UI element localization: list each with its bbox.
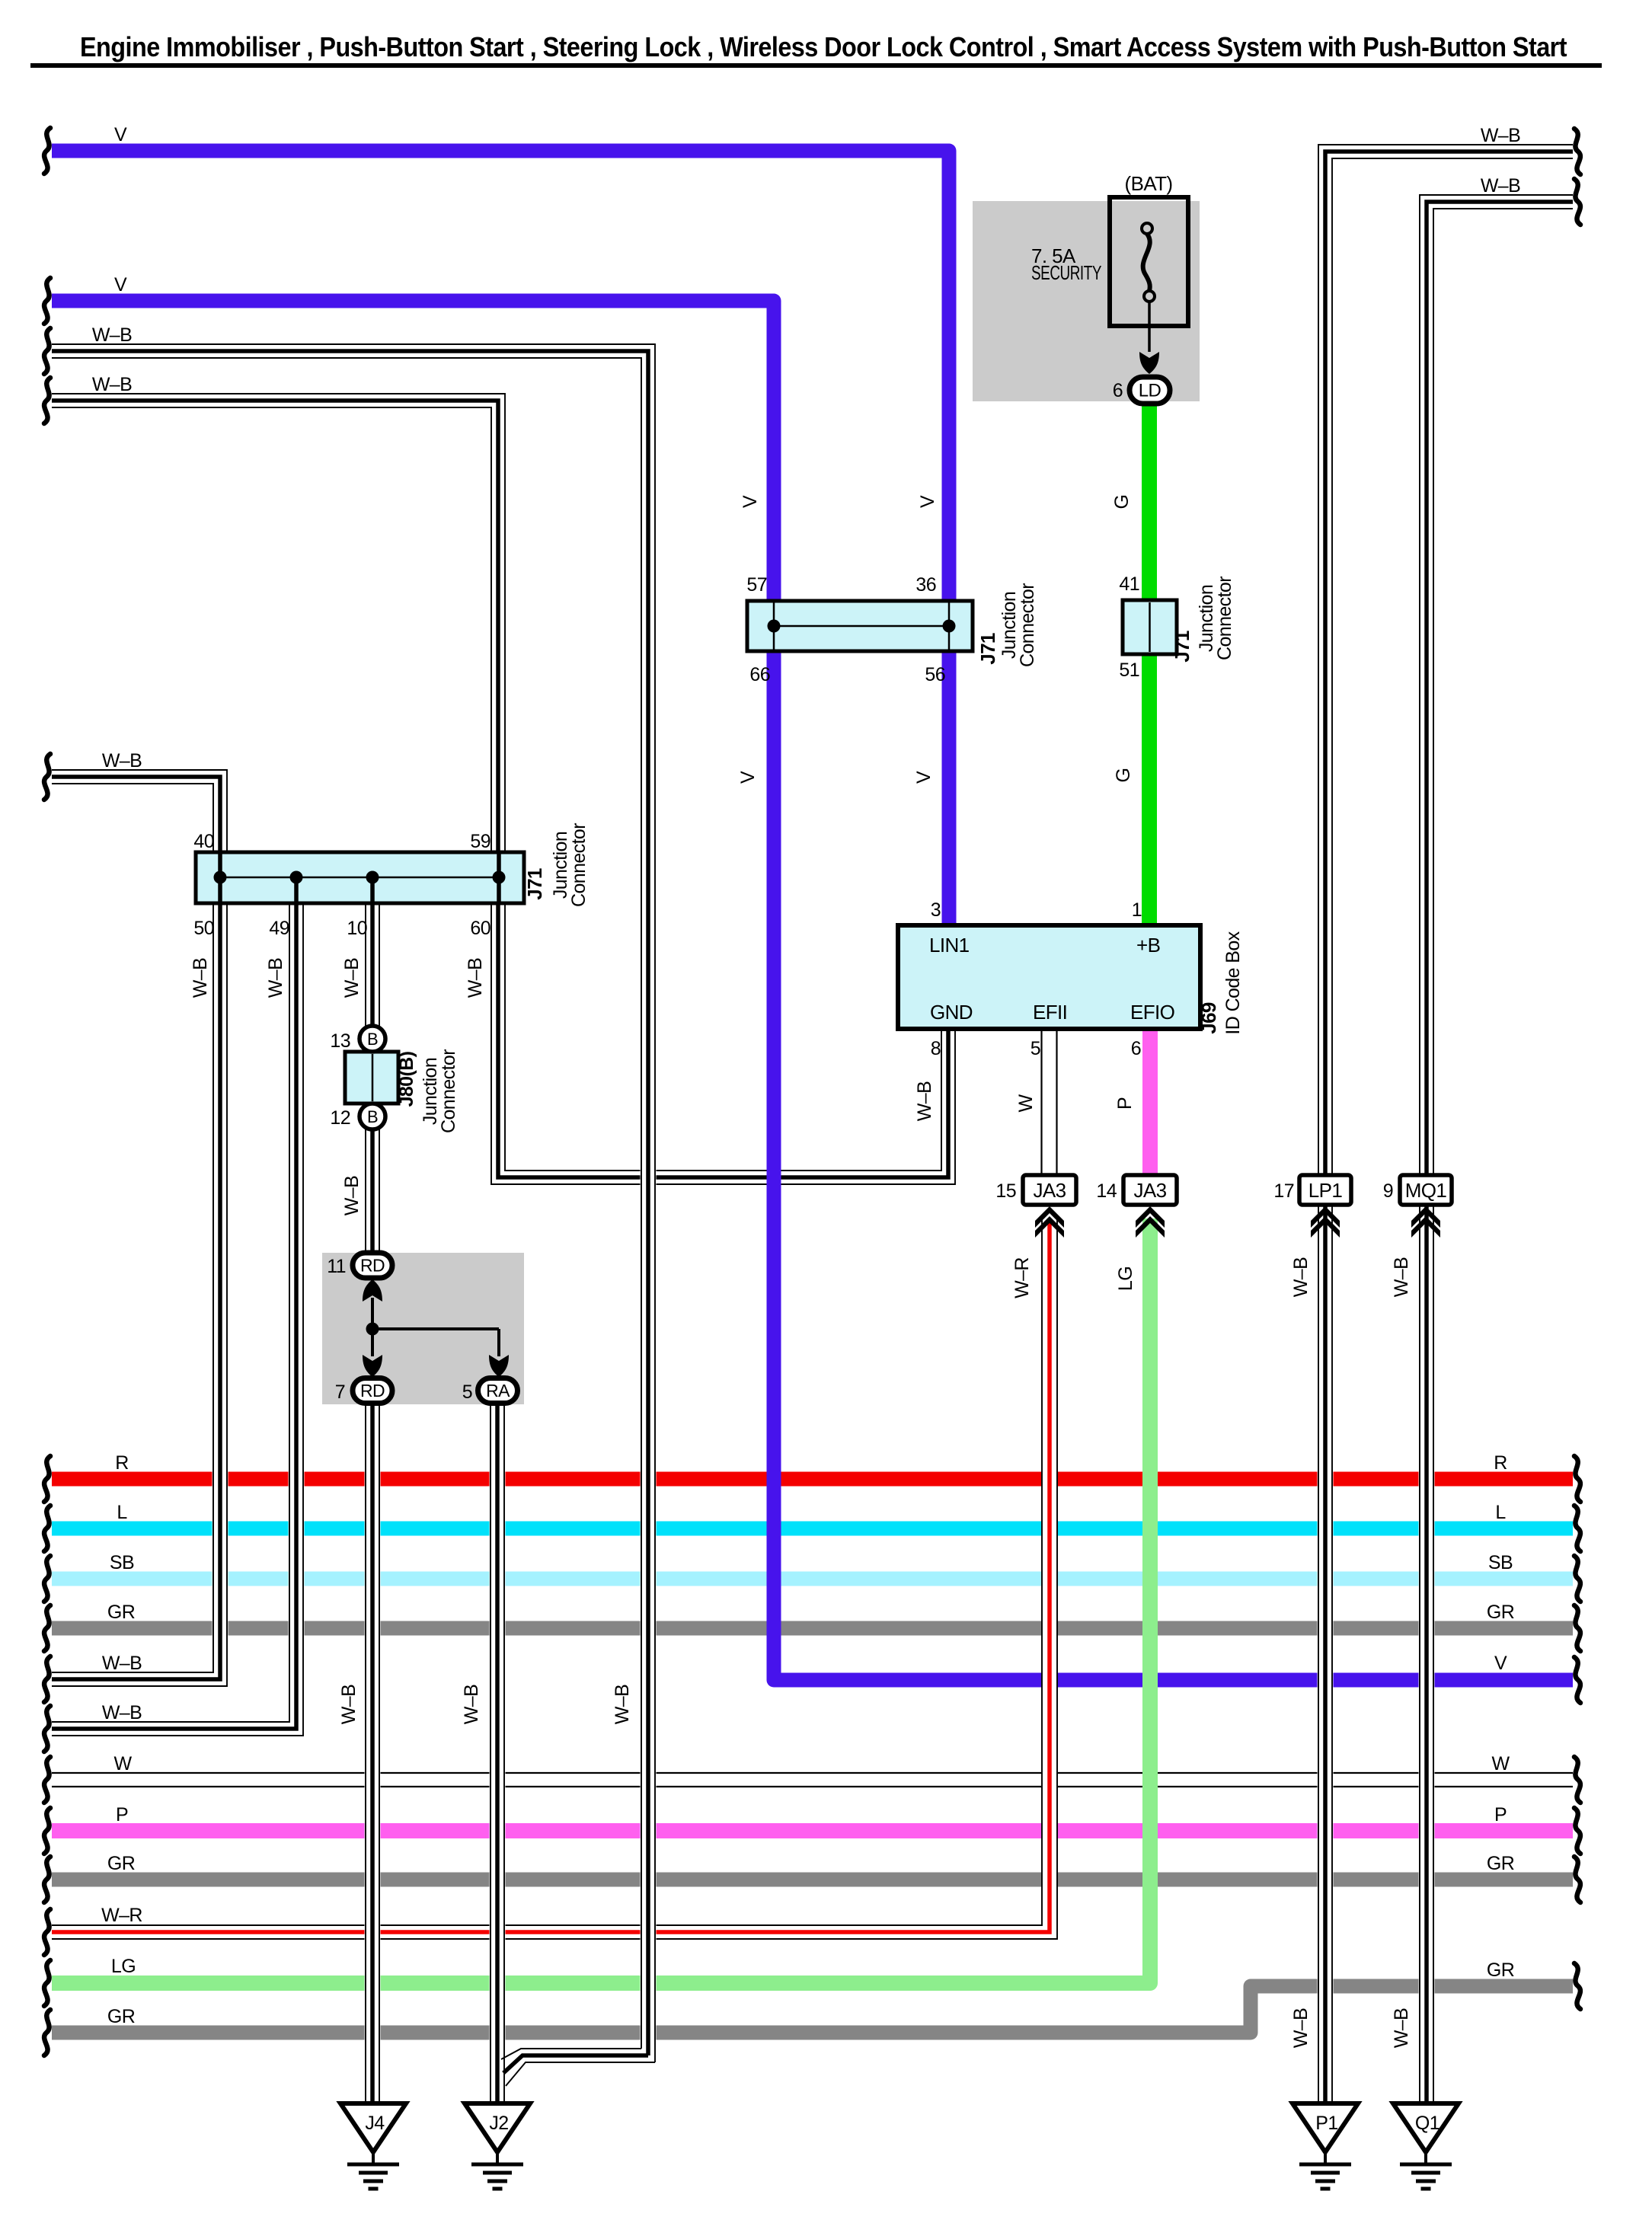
connector 17 LP1 (1273, 1175, 1351, 1205)
chevron arrows under 17 LP1 (1311, 1206, 1340, 1238)
svg-text:W–B: W–B (338, 1685, 359, 1724)
svg-text:Connector: Connector (568, 823, 590, 907)
svg-text:W–B: W–B (1481, 125, 1520, 146)
label G rotated (above J71) (1111, 495, 1133, 509)
wire W-B left #1 jog joining J2 ground wire (501, 2049, 655, 2086)
fuse label (BAT) (1125, 172, 1173, 195)
label GR left middle (107, 1853, 135, 1874)
harness break mark left: GR bus upper (44, 1605, 50, 1651)
wire W-B from J71 pin49 down, left to edge (W-B bus 2) (52, 903, 303, 1736)
pin 57 (746, 574, 767, 596)
label V rotated (wire2 above J71) (740, 495, 761, 508)
svg-text:L: L (1495, 1502, 1506, 1523)
label L left (117, 1502, 127, 1523)
harness break mark right: P bus (1574, 1808, 1580, 1854)
svg-text:V: V (740, 495, 761, 508)
pin 40 (193, 831, 214, 852)
label LG left (111, 1956, 136, 1977)
svg-text:10: 10 (347, 918, 367, 939)
svg-text:W–B: W–B (1391, 1257, 1412, 1297)
harness break mark left: V wire 2 (44, 278, 50, 324)
svg-text:ID Code Box: ID Code Box (1222, 931, 1244, 1034)
harness break mark left: W-R bus (44, 1909, 50, 1955)
wire P pink: ID code box pin6 EFIO down to JA3 pin14 (1142, 1029, 1158, 1177)
svg-text:Q1: Q1 (1415, 2113, 1440, 2134)
svg-text:5: 5 (1031, 1038, 1040, 1059)
ground Q1 (1393, 2103, 1459, 2189)
svg-text:56: 56 (925, 664, 945, 685)
label GR right middle (1487, 1853, 1514, 1874)
harness break mark left: W-B wire 2 (44, 378, 50, 423)
wire V violet #2: from left edge right, down through J71 57/66, down, right to right edge (V bus) (52, 301, 1573, 1680)
pin 11 (relay RD) (327, 1256, 346, 1277)
svg-text:W–B: W–B (1391, 2008, 1412, 2048)
label W-B (left wire 3) (102, 750, 142, 771)
svg-text:L: L (117, 1502, 127, 1523)
designator J71 middle + Junction Connector (976, 583, 1038, 667)
svg-text:V: V (737, 771, 759, 784)
label R left (115, 1452, 128, 1474)
svg-text:W–B: W–B (461, 1685, 482, 1724)
arrow down to terminal 7 (363, 1355, 382, 1377)
svg-text:5: 5 (462, 1381, 472, 1403)
harness break mark right: W-B wire right 1 (1574, 129, 1580, 174)
label W-B rotated (x851 wire lower) (612, 1685, 633, 1724)
designator J71 long + Junction Connector (523, 823, 590, 907)
harness break mark right: GR bus bottom (1574, 1963, 1580, 2009)
svg-text:Connector: Connector (1017, 583, 1038, 667)
wire W-B right #1: from right edge left at y199, down through LP1 to ground P1 (1318, 145, 1573, 2103)
wire W from ID box pin5 EFII down to JA3 pin15 (two rails) (1042, 1029, 1057, 1177)
label W-B bus1 left (102, 1653, 142, 1674)
wire W-B left #2: from left edge right at y526, down to J71 pin59; from pin60 down, right, up to ID box GND pin8 (52, 394, 955, 1184)
label W-B rotated (LP1 wire upper) (1290, 1257, 1312, 1297)
svg-text:49: 49 (269, 918, 289, 939)
svg-text:W: W (114, 1753, 133, 1774)
harness break mark left: V wire 1 (44, 128, 50, 174)
pin 56 (925, 664, 945, 685)
svg-text:59: 59 (470, 831, 490, 852)
svg-text:R: R (1494, 1452, 1507, 1474)
label G rotated (below J71) (1113, 768, 1134, 783)
pin 12 (330, 1107, 350, 1129)
label W-B rotated (P1 wire lower) (1290, 2008, 1312, 2048)
svg-text:J2: J2 (489, 2113, 508, 2134)
harness break mark left: P bus (44, 1808, 50, 1854)
svg-text:G: G (1113, 768, 1134, 783)
label W-B rotated (J80 to relay) (341, 1176, 363, 1215)
label L right (1495, 1502, 1506, 1523)
label W-B right wire1 (1481, 125, 1520, 146)
wire GR gray bus (upper) (52, 1621, 1573, 1636)
svg-text:W–R: W–R (1011, 1257, 1033, 1298)
label R right (1494, 1452, 1507, 1474)
pin 10 (347, 918, 367, 939)
wire W-B from J71 pin10 down to J80(B) pin13 (366, 903, 379, 1028)
svg-text:6: 6 (1113, 380, 1123, 401)
svg-text:3: 3 (931, 899, 941, 921)
svg-text:14: 14 (1096, 1180, 1117, 1202)
label W-B rotated pin60 wire (465, 958, 486, 998)
label SB left (110, 1552, 134, 1573)
svg-text:LD: LD (1139, 381, 1162, 401)
chevron arrows under 9 MQ1 (1411, 1206, 1440, 1238)
svg-text:13: 13 (330, 1030, 350, 1052)
svg-text:W: W (1492, 1753, 1510, 1774)
label W-B rotated pin10 wire (341, 958, 363, 998)
label V right (1494, 1653, 1507, 1674)
pin 6 (EFIO) (1131, 1038, 1141, 1059)
svg-text:EFII: EFII (1033, 1001, 1067, 1024)
svg-text:W–B: W–B (341, 958, 363, 998)
pin 51 (1119, 660, 1139, 681)
label W-R rotated (below JA3 15) (1011, 1257, 1033, 1298)
harness break mark left: R bus (44, 1456, 50, 1502)
svg-text:V: V (913, 771, 935, 784)
svg-text:W–B: W–B (190, 958, 211, 998)
title: Engine Immobiliser header (30, 31, 1602, 68)
chevron arrows under 14 JA3 (1136, 1206, 1165, 1238)
svg-text:W–B: W–B (92, 374, 132, 395)
svg-text:W–B: W–B (1290, 2008, 1312, 2048)
svg-text:12: 12 (330, 1107, 350, 1129)
label W left (114, 1753, 133, 1774)
svg-text:V: V (114, 274, 127, 295)
arrow up into terminal 11 (363, 1279, 382, 1302)
junction connector J71 (middle, pins 57/36 top, 66/56 bottom) (747, 601, 973, 651)
svg-text:41: 41 (1119, 573, 1139, 595)
junction connector J71 (small, pins 41/51) (1123, 600, 1177, 654)
svg-text:SB: SB (1488, 1552, 1513, 1573)
svg-text:51: 51 (1119, 660, 1139, 681)
pin 13 (330, 1030, 350, 1052)
label V (wire 1) (114, 124, 127, 145)
svg-text:W–B: W–B (265, 958, 286, 998)
wire GR gray bus (middle) (52, 1873, 1573, 1887)
svg-text:SB: SB (110, 1552, 134, 1573)
svg-text:GR: GR (107, 2006, 135, 2027)
svg-text:EFIO: EFIO (1130, 1001, 1174, 1024)
svg-text:J71: J71 (976, 633, 999, 665)
pin 1 (1132, 899, 1142, 921)
svg-text:RD: RD (360, 1381, 385, 1401)
wire V violet #1: from top-left edge right, down to J71 pin36, pin56 down to ID code box pin3 (52, 151, 949, 925)
wire W-B from relay terminal 5 RA down to ground J2 (490, 1403, 504, 2103)
relay block shaded background box (RD/RA) (322, 1253, 524, 1404)
svg-text:GR: GR (1487, 1853, 1514, 1874)
harness break mark right: W bus (1574, 1757, 1580, 1803)
label W-B rotated (GND pin8 wire) (914, 1081, 935, 1121)
svg-text:W–B: W–B (92, 324, 132, 346)
relay terminal 7 RD oval (353, 1378, 392, 1404)
wire W-B from J71 pin50 down, left to edge (W-B bus 1) (52, 903, 227, 1686)
ground J4 (340, 2103, 406, 2189)
svg-text:36: 36 (915, 574, 936, 596)
svg-text:GR: GR (107, 1853, 135, 1874)
label SB right (1488, 1552, 1513, 1573)
label W-B right wire2 (1481, 175, 1520, 196)
svg-text:B: B (367, 1030, 378, 1049)
fuse 7.5A SECURITY shaded background box (973, 201, 1200, 401)
label W-B rotated (MQ1 wire upper) (1391, 1257, 1412, 1297)
harness break mark right: GR bus middle (1574, 1857, 1580, 1902)
label W right (1492, 1753, 1510, 1774)
harness break mark right: V bus (1574, 1657, 1580, 1703)
wire W-B left #3: from left edge right at y1020 down to J71 pin40 (52, 770, 227, 852)
svg-text:LP1: LP1 (1308, 1179, 1343, 1202)
svg-text:B: B (367, 1107, 378, 1126)
svg-text:W–B: W–B (102, 1653, 142, 1674)
wire SB sky-blue bus (52, 1572, 1573, 1586)
svg-text:R: R (115, 1452, 128, 1474)
label W-B (left wire 2) (92, 374, 132, 395)
label GR left bottom (107, 2006, 135, 2027)
harness break mark left: W bus (44, 1757, 50, 1803)
label GR right bottom (1487, 1960, 1514, 1981)
label V rotated (wire1 above J71) (917, 495, 938, 508)
label W-B rotated (Q1 wire lower) (1391, 2008, 1412, 2048)
label W-B rotated pin49 wire (265, 958, 286, 998)
label GR right upper (1487, 1602, 1514, 1623)
label V rotated (wire2 below J71) (737, 771, 759, 784)
label W rotated (EFII wire) (1015, 1094, 1037, 1113)
svg-text:9: 9 (1383, 1180, 1393, 1202)
svg-text:W–B: W–B (341, 1176, 363, 1215)
wire R red bus (left R to right R) (52, 1472, 1573, 1487)
svg-text:LIN1: LIN1 (929, 934, 970, 957)
svg-text:11: 11 (327, 1256, 346, 1277)
pin 5 (EFII) (1031, 1038, 1040, 1059)
ground P1 (1293, 2103, 1358, 2189)
pin 59 (470, 831, 490, 852)
harness break mark left: GR bus bottom (44, 2010, 50, 2055)
label W-R left (101, 1905, 142, 1926)
svg-text:JA3: JA3 (1133, 1179, 1166, 1202)
svg-text:W–R: W–R (101, 1905, 142, 1926)
svg-text:W–B: W–B (1290, 1257, 1312, 1297)
harness break mark left: GR bus middle (44, 1857, 50, 1902)
junction connector J71 (long, pins 40/59 top, 50/49/10/60 bottom) (196, 852, 524, 903)
wire LG light-green: vertical from JA3 pin14 down, then left to edge (52, 1219, 1150, 1983)
wire W white bus (two thin rails) (52, 1773, 1573, 1787)
fuse label 7.5A SECURITY (1031, 244, 1101, 284)
wire: relay internal link with junction node (366, 1298, 500, 1356)
svg-text:P: P (116, 1804, 128, 1825)
relay terminal 11 RD oval (353, 1253, 392, 1278)
label V (wire 2) (114, 274, 127, 295)
svg-text:J69: J69 (1197, 1002, 1220, 1034)
svg-text:57: 57 (746, 574, 767, 596)
svg-text:V: V (917, 495, 938, 508)
svg-text:LG: LG (111, 1956, 136, 1977)
harness break mark left: SB bus (44, 1556, 50, 1602)
label W-B (left wire 1) (92, 324, 132, 346)
wire L cyan bus (52, 1522, 1573, 1536)
designator J71 small + Junction Connector (1171, 577, 1235, 663)
junction connector J80(B) with B ring terminals 13/12 (345, 1026, 398, 1129)
svg-text:GR: GR (1487, 1960, 1514, 1981)
pin 36 (915, 574, 936, 596)
svg-text:P1: P1 (1315, 2113, 1337, 2134)
fuse 7.5A SECURITY (BAT) (1110, 197, 1188, 374)
svg-text:W–B: W–B (102, 750, 142, 771)
label W-B rotated (J2 wire) (461, 1685, 482, 1724)
svg-text:Connector: Connector (438, 1049, 459, 1133)
svg-text:W–B: W–B (102, 1702, 142, 1723)
svg-text:J80(B): J80(B) (396, 1051, 417, 1107)
svg-text:7: 7 (335, 1381, 345, 1403)
pin 50 (193, 918, 214, 939)
svg-text:60: 60 (470, 918, 490, 939)
harness break mark left: LG bus (44, 1960, 50, 2006)
svg-text:W: W (1015, 1094, 1037, 1113)
svg-text:V: V (1494, 1653, 1507, 1674)
svg-text:Connector: Connector (1214, 577, 1235, 660)
svg-text:8: 8 (931, 1038, 941, 1059)
harness break mark left: L bus (44, 1506, 50, 1551)
svg-text:1: 1 (1132, 899, 1142, 921)
arrow down to terminal 5 (489, 1355, 509, 1377)
svg-text:SECURITY: SECURITY (1031, 261, 1101, 284)
harness break mark right: SB bus (1574, 1556, 1580, 1602)
harness break mark right: R bus (1574, 1456, 1580, 1502)
svg-text:J71: J71 (523, 868, 546, 900)
svg-text:+B: +B (1136, 934, 1160, 957)
label W-B rotated pin50 wire (190, 958, 211, 998)
label LG rotated (below JA3 14) (1115, 1266, 1136, 1291)
svg-text:17: 17 (1273, 1180, 1294, 1202)
designator J69 ID Code Box (1197, 931, 1244, 1034)
label P rotated (EFIO wire) (1114, 1097, 1136, 1110)
label V rotated (wire1 below J71) (913, 771, 935, 784)
harness break mark right: L bus (1574, 1506, 1580, 1551)
pin 49 (269, 918, 289, 939)
pin 8 (931, 1038, 941, 1059)
svg-text:LG: LG (1115, 1266, 1136, 1291)
svg-text:W–B: W–B (465, 958, 486, 998)
pin 7 (relay RD) (335, 1381, 345, 1403)
svg-text:JA3: JA3 (1033, 1179, 1066, 1202)
harness break mark right: W-B wire right 2 (1574, 179, 1580, 225)
svg-text:V: V (114, 124, 127, 145)
connector 15 JA3 (995, 1175, 1076, 1205)
harness break mark right: GR bus upper (1574, 1605, 1580, 1651)
svg-text:Engine Immobiliser , Push-Butt: Engine Immobiliser , Push-Button Start ,… (80, 31, 1567, 62)
label P left (116, 1804, 128, 1825)
wire W-R white-red: from JA3 pin15 down, left to left edge (W-R bus) (52, 1219, 1057, 1939)
svg-text:GR: GR (107, 1602, 135, 1623)
wire W-B right #2: from right edge left at y265, down through MQ1 to ground Q1 (1420, 195, 1573, 2103)
svg-text:P: P (1494, 1804, 1507, 1825)
svg-text:66: 66 (749, 664, 770, 685)
svg-text:W–B: W–B (612, 1685, 633, 1724)
harness break mark left: W-B wire 1 (44, 328, 50, 374)
svg-text:P: P (1114, 1097, 1136, 1110)
relay terminal 5 RA oval (478, 1378, 518, 1404)
harness break mark left: W-B bus 2 (44, 1706, 50, 1752)
svg-text:W–B: W–B (914, 1081, 935, 1121)
wire W-B from relay terminal 7 RD down to ground J4 (366, 1403, 379, 2103)
wire GR gray bus (bottom, jogged) (52, 1986, 1573, 2033)
label P right (1494, 1804, 1507, 1825)
svg-text:15: 15 (995, 1180, 1016, 1202)
pin 60 (470, 918, 490, 939)
wire G green: from fuse LD terminal down through J71 41/51 to ID code box pin1 +B (1142, 402, 1157, 925)
designator J80(B) + Junction Connector (396, 1049, 459, 1133)
svg-text:GND: GND (930, 1001, 973, 1024)
connector 14 JA3 (1096, 1175, 1177, 1205)
svg-text:6: 6 (1131, 1038, 1141, 1059)
label W-B rotated (J4 wire) (338, 1685, 359, 1724)
wire P pink bus (52, 1823, 1573, 1838)
label W-B bus2 left (102, 1702, 142, 1723)
connector 9 MQ1 (1383, 1175, 1452, 1205)
ID code box J69 (898, 925, 1200, 1029)
pin 41 (1119, 573, 1139, 595)
svg-text:GR: GR (1487, 1602, 1514, 1623)
svg-text:W–B: W–B (1481, 175, 1520, 196)
pin 66 (749, 664, 770, 685)
svg-text:RD: RD (360, 1256, 385, 1276)
pin 3 (931, 899, 941, 921)
pin 5 (relay RA) (462, 1381, 472, 1403)
svg-text:J4: J4 (365, 2113, 385, 2134)
terminal 6 LD oval (1113, 377, 1170, 404)
chevron arrows under 15 JA3 (1035, 1206, 1064, 1238)
harness break mark left: W-B bus 1 (44, 1656, 50, 1702)
label GR left upper (107, 1602, 135, 1623)
svg-text:MQ1: MQ1 (1405, 1179, 1447, 1202)
ground J2 (465, 2103, 530, 2189)
svg-text:(BAT): (BAT) (1125, 172, 1173, 195)
svg-text:G: G (1111, 495, 1133, 509)
svg-text:50: 50 (193, 918, 214, 939)
harness break mark left: W-B wire 3 (44, 754, 50, 800)
wire W-B from J80(B) pin12 down to relay block terminal 11 RD (366, 1127, 379, 1255)
wire W-B left #1: from left edge right at y461, down at x851 (52, 344, 655, 2062)
svg-text:J71: J71 (1171, 631, 1193, 663)
svg-text:40: 40 (193, 831, 214, 852)
svg-text:RA: RA (486, 1381, 510, 1401)
